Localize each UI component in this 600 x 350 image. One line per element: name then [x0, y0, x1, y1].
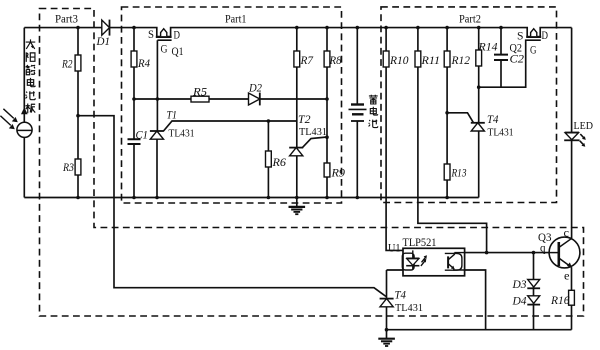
svg-text:TL431: TL431 [395, 302, 423, 314]
svg-text:C2: C2 [510, 54, 525, 66]
svg-text:R6: R6 [271, 157, 286, 169]
svg-text:e: e [564, 271, 570, 283]
svg-text:TL431: TL431 [169, 128, 195, 140]
svg-text:G: G [161, 44, 168, 56]
svg-text:R14: R14 [477, 42, 497, 54]
svg-text:R4: R4 [137, 58, 150, 70]
svg-text:T4: T4 [487, 114, 499, 126]
svg-text:Q2: Q2 [510, 43, 523, 55]
svg-text:c: c [564, 228, 570, 240]
svg-text:R16: R16 [550, 295, 570, 307]
svg-text:Part1: Part1 [225, 14, 247, 26]
svg-text:q: q [540, 243, 546, 255]
svg-text:D1: D1 [96, 36, 110, 48]
svg-text:R13: R13 [451, 168, 467, 180]
svg-text:S: S [517, 31, 524, 43]
svg-text:R7: R7 [300, 55, 315, 67]
svg-text:Part3: Part3 [55, 14, 78, 26]
svg-text:TL431: TL431 [299, 126, 327, 138]
svg-text:D2: D2 [248, 83, 262, 95]
svg-text:R9: R9 [330, 168, 345, 180]
svg-text:D4: D4 [512, 296, 527, 308]
svg-text:Part2: Part2 [459, 14, 481, 26]
svg-text:T4: T4 [395, 290, 407, 302]
svg-text:D: D [174, 30, 181, 42]
svg-text:R8: R8 [329, 55, 342, 67]
svg-text:C1: C1 [136, 130, 149, 142]
svg-text:TLP521: TLP521 [403, 237, 437, 249]
svg-text:R12: R12 [451, 55, 471, 67]
svg-text:LED: LED [574, 121, 594, 132]
svg-text:U1: U1 [388, 243, 401, 255]
svg-text:T2: T2 [298, 114, 311, 126]
svg-text:R2: R2 [61, 59, 73, 71]
svg-text:R3: R3 [62, 162, 74, 174]
svg-text:S: S [148, 29, 154, 41]
svg-text:D3: D3 [512, 279, 527, 291]
svg-text:D: D [542, 30, 549, 42]
svg-text:R11: R11 [420, 55, 440, 67]
svg-text:TL431: TL431 [488, 127, 514, 139]
svg-text:G: G [530, 45, 537, 57]
svg-text:R10: R10 [389, 55, 409, 67]
svg-text:Q1: Q1 [172, 46, 184, 58]
svg-text:R5: R5 [192, 86, 207, 98]
svg-text:T1: T1 [167, 110, 178, 122]
